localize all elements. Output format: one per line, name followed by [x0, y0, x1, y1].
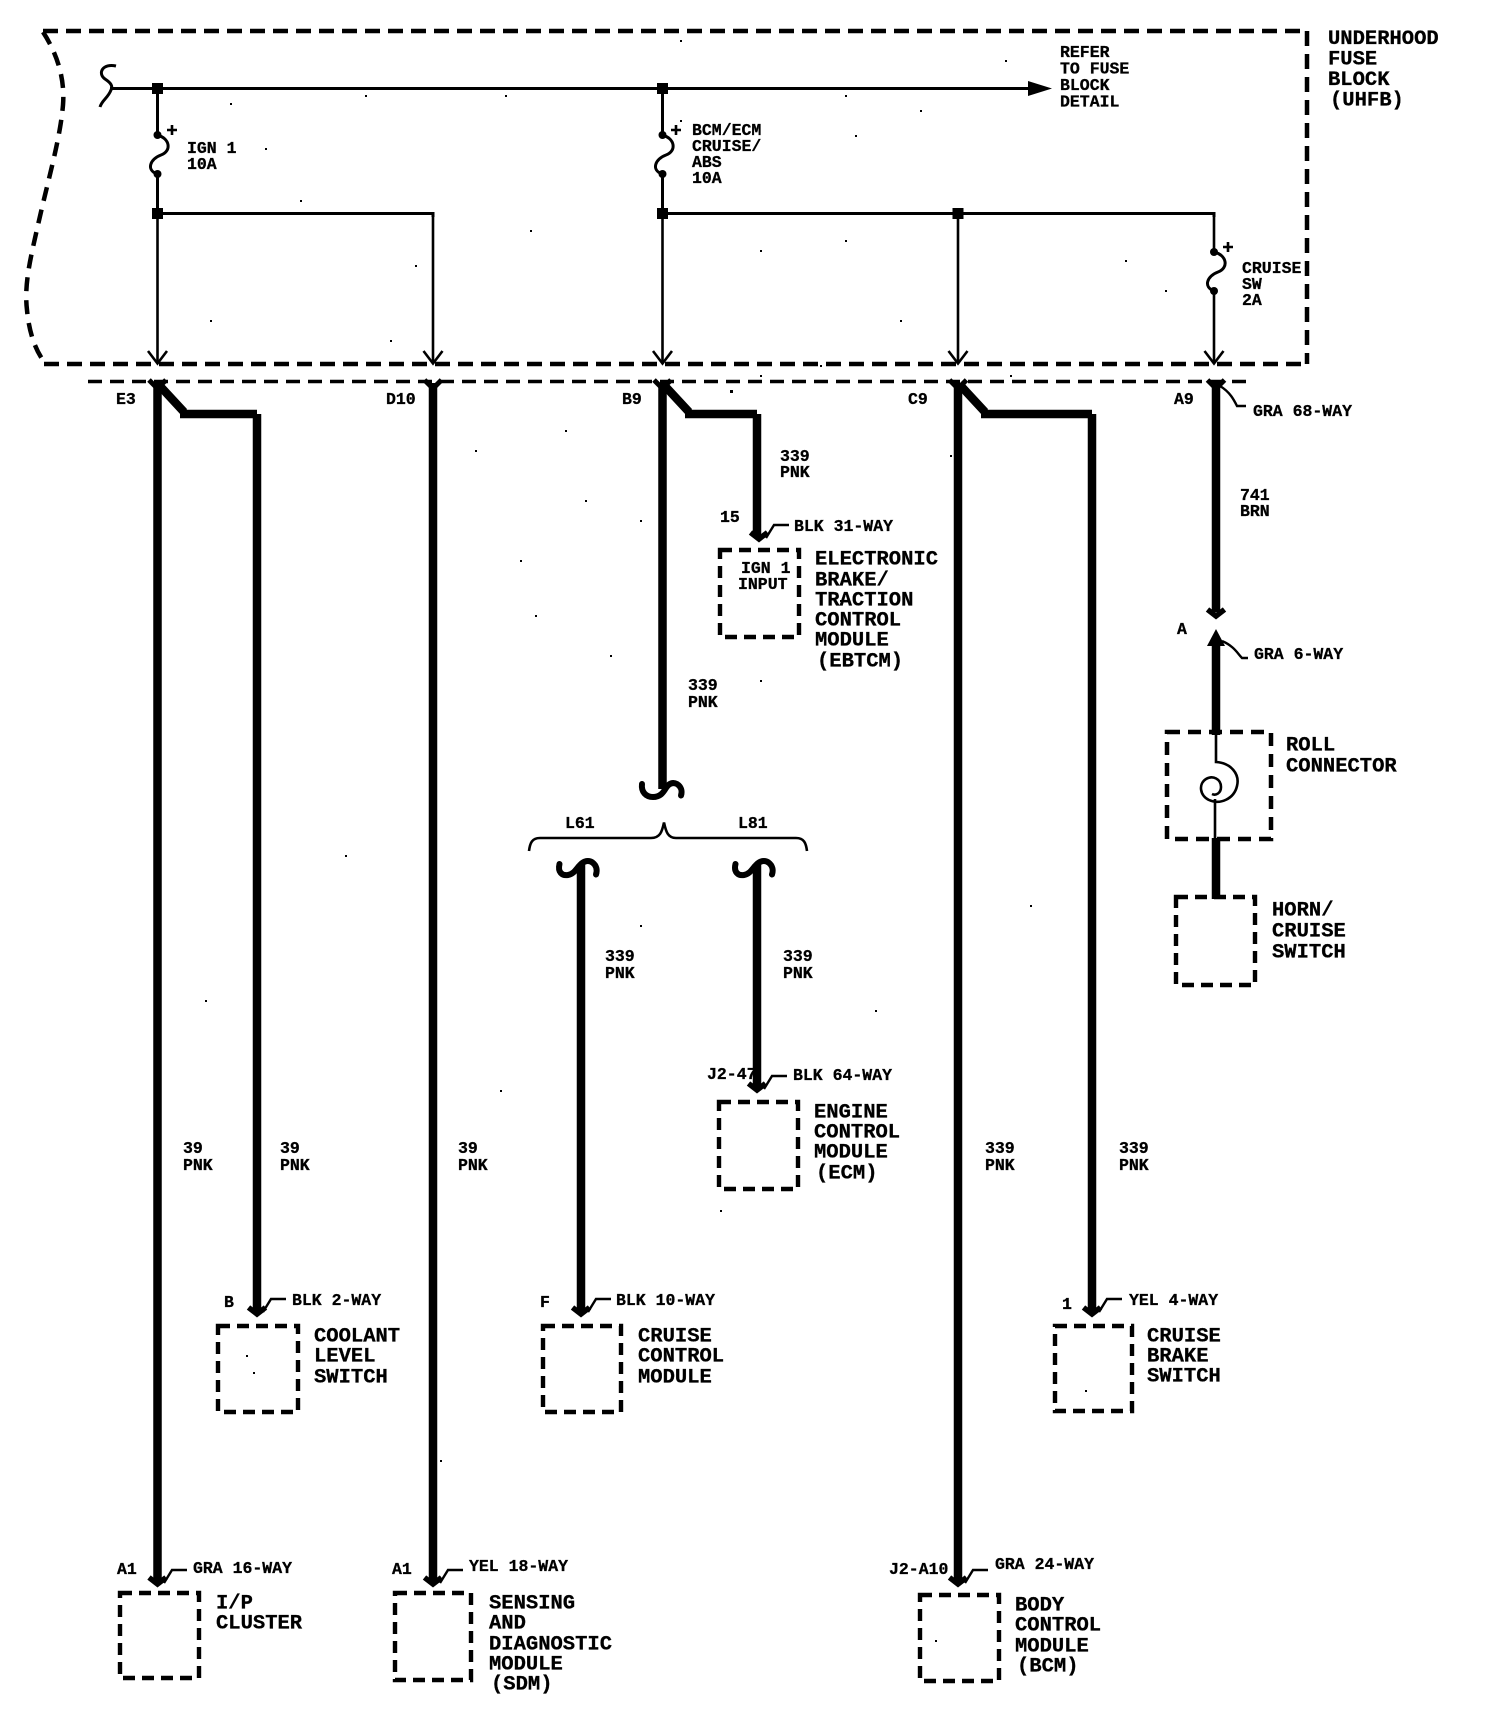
wire 39 PNK E3 branch to coolant level switch: [159, 385, 257, 1311]
svg-text:(SDM): (SDM): [491, 1674, 553, 1697]
svg-text:HORN/: HORN/: [1272, 900, 1334, 923]
fuse BCM/ECM lead lower: [661, 174, 664, 213]
wire top supply bus: [110, 87, 1046, 90]
label BODY CONTROL MODULE (BCM): [1015, 1595, 1101, 1679]
svg-text:MODULE: MODULE: [814, 1142, 888, 1165]
svg-text:LEVEL: LEVEL: [314, 1346, 376, 1369]
module SDM dashed box: [395, 1593, 471, 1680]
connector 15 arrow foot: [751, 533, 768, 540]
leader to GRA 24-WAY: [965, 1570, 988, 1583]
svg-text:2A: 2A: [1242, 291, 1262, 310]
leader to YEL 18-WAY: [440, 1570, 463, 1583]
module ECM dashed box: [719, 1102, 798, 1189]
svg-text:C9: C9: [908, 390, 928, 409]
svg-text:MODULE: MODULE: [815, 630, 889, 653]
svg-text:GRA 6-WAY: GRA 6-WAY: [1254, 645, 1343, 664]
wire 339 PNK to ECM: [753, 864, 762, 1087]
wire 39 PNK D10 vertical: [429, 383, 438, 1581]
underhood fuse block UHFB dashed border left wavy: [26, 32, 63, 363]
connector B9 chevron: [654, 380, 671, 389]
svg-text:10A: 10A: [692, 169, 722, 188]
svg-text:1: 1: [1062, 1295, 1072, 1314]
module I/P cluster dashed box: [120, 1593, 199, 1678]
svg-text:10A: 10A: [187, 155, 217, 174]
wire B9 feed drop: [661, 217, 664, 362]
connector E3 chevron: [149, 380, 166, 389]
wire roll connector to horn/cruise switch: [1212, 838, 1221, 899]
svg-text:PNK: PNK: [183, 1156, 213, 1175]
svg-text:GRA 24-WAY: GRA 24-WAY: [995, 1555, 1094, 1574]
module BCM dashed box: [920, 1595, 999, 1681]
splice start curl cruise control module wire: [559, 861, 597, 875]
fuse IGN 1 10A lead upper: [156, 88, 159, 136]
label 39 PNK (D10): [458, 1139, 488, 1175]
connector J2-A10 arrow foot (BCM): [950, 1578, 967, 1585]
svg-text:J2-47: J2-47: [707, 1065, 757, 1084]
svg-text:E3: E3: [116, 390, 136, 409]
fuse CRUISE SW 2A lead upper: [1213, 214, 1216, 253]
label 339 PNK (cruise control): [605, 947, 635, 983]
wire D10 feed drop: [432, 214, 435, 362]
leader to GRA 16-WAY: [164, 1570, 187, 1583]
arrowhead C9 feed: [949, 351, 968, 364]
leader to BLK 10-WAY: [588, 1299, 611, 1312]
wire bus from IGN1 fuse to D10 drop: [157, 214, 433, 218]
module horn/cruise switch dashed box: [1176, 897, 1255, 985]
label 741 BRN: [1240, 486, 1270, 521]
svg-text:L61: L61: [565, 814, 595, 833]
arrow foot A9 wire end: [1208, 610, 1225, 617]
svg-text:SWITCH: SWITCH: [1147, 1366, 1221, 1389]
label I/P CLUSTER: [216, 1593, 303, 1636]
leader to GRA 6-WAY: [1222, 641, 1248, 658]
plus sign at fuse CRUISE SW: [1223, 242, 1233, 252]
svg-text:(EBTCM): (EBTCM): [817, 651, 903, 674]
svg-text:CONTROL: CONTROL: [638, 1346, 724, 1369]
fuse IGN 1 10A lead lower: [156, 174, 159, 213]
svg-text:GRA 68-WAY: GRA 68-WAY: [1253, 402, 1352, 421]
connector A up arrow solid: [1207, 629, 1225, 646]
svg-text:BLK 31-WAY: BLK 31-WAY: [794, 517, 893, 536]
wire break hook at left end of top bus: [100, 65, 116, 107]
node junction dot x958 y213: [953, 208, 964, 219]
underhood fuse block UHFB dashed border right: [1305, 31, 1310, 364]
svg-text:MODULE: MODULE: [638, 1367, 712, 1390]
svg-text:CLUSTER: CLUSTER: [216, 1613, 303, 1636]
leader to BLK 2-WAY: [263, 1299, 286, 1312]
svg-text:CRUISE: CRUISE: [1272, 921, 1346, 944]
label UNDERHOOD FUSE BLOCK (UHFB): [1328, 28, 1439, 113]
leader to BLK 31-WAY: [766, 525, 789, 538]
wire C9 feed drop: [957, 214, 960, 362]
label 339 PNK (ECM): [783, 947, 813, 983]
wire 39 PNK E3 main vertical: [153, 383, 162, 1581]
label SENSING AND DIAGNOSTIC MODULE (SDM): [489, 1593, 612, 1697]
wire 339 PNK C9 main vertical: [954, 383, 963, 1581]
svg-text:YEL 18-WAY: YEL 18-WAY: [469, 1557, 568, 1576]
connector row dashed line: [88, 380, 1250, 384]
connector 1 arrow foot: [1084, 1308, 1101, 1315]
label IGN 1 10A: [187, 139, 237, 174]
underhood fuse block UHFB dashed border bottom: [44, 362, 1307, 367]
module cruise control module dashed box: [543, 1326, 621, 1412]
wire 339 PNK to cruise control module: [577, 864, 586, 1311]
label 39 PNK (E3): [183, 1139, 213, 1175]
splice end curl at B9 wire: [642, 783, 682, 797]
label ENGINE CONTROL MODULE (ECM): [814, 1102, 900, 1186]
leader to GRA 68-WAY: [1220, 386, 1246, 406]
svg-text:15: 15: [720, 508, 740, 527]
svg-text:A1: A1: [117, 1560, 137, 1579]
connector D10 chevron: [425, 380, 442, 389]
wire 339 PNK B9 main vertical: [658, 383, 667, 789]
wire 339 PNK B9 branch to EBTCM: [664, 385, 757, 536]
svg-text:INPUT: INPUT: [738, 575, 788, 594]
fuse BCM/ECM CRUISE/ABS 10A coil: [655, 135, 673, 174]
svg-text:BLK 10-WAY: BLK 10-WAY: [616, 1291, 715, 1310]
svg-text:D10: D10: [386, 390, 416, 409]
wire 339 PNK C9 branch to cruise brake switch: [960, 385, 1092, 1311]
svg-text:ROLL: ROLL: [1286, 735, 1335, 758]
label 39 PNK (coolant branch): [280, 1139, 310, 1175]
connector A1 arrow foot (SDM): [425, 1578, 442, 1585]
label CRUISE SW 2A: [1242, 259, 1302, 310]
arrow to fuse block detail: [1028, 81, 1052, 96]
wire 741 BRN to roll connector: [1212, 640, 1221, 735]
svg-text:PNK: PNK: [783, 964, 813, 983]
label 339 PNK (B9 main): [688, 676, 718, 712]
node junction dot bus x662: [657, 83, 668, 94]
connector A1 arrow foot (I/P cluster): [149, 1578, 166, 1585]
svg-text:DETAIL: DETAIL: [1060, 93, 1120, 112]
label ROLL CONNECTOR: [1286, 735, 1397, 779]
svg-text:PNK: PNK: [780, 463, 810, 482]
svg-text:YEL 4-WAY: YEL 4-WAY: [1129, 1291, 1218, 1310]
svg-text:PNK: PNK: [1119, 1156, 1149, 1175]
label ELECTRONIC BRAKE/TRACTION CONTROL MODULE (EBTCM): [815, 549, 938, 674]
svg-text:PNK: PNK: [985, 1156, 1015, 1175]
arrowhead D10 feed: [424, 351, 443, 364]
fuse IGN 1 10A coil: [150, 135, 168, 174]
connector F arrow foot: [573, 1308, 590, 1315]
label CRUISE BRAKE SWITCH: [1147, 1326, 1221, 1389]
arrowhead B9 feed: [653, 351, 672, 364]
svg-text:F: F: [540, 1293, 550, 1312]
label CRUISE CONTROL MODULE: [638, 1326, 724, 1390]
connector C9 chevron: [950, 380, 967, 389]
module EBTCM dashed box: [720, 550, 799, 637]
svg-text:PNK: PNK: [688, 693, 718, 712]
label 339 PNK (C9): [985, 1139, 1015, 1175]
plus sign at fuse IGN 1: [167, 125, 177, 135]
label IGN 1 INPUT: [738, 559, 791, 594]
svg-text:SWITCH: SWITCH: [314, 1367, 388, 1390]
connector J2-47 arrow foot: [749, 1084, 766, 1091]
svg-text:(UHFB): (UHFB): [1330, 90, 1404, 113]
svg-text:SWITCH: SWITCH: [1272, 942, 1346, 965]
svg-text:PNK: PNK: [458, 1156, 488, 1175]
node junction dot x157 y213: [152, 208, 163, 219]
svg-text:(ECM): (ECM): [816, 1163, 878, 1186]
svg-text:GRA 16-WAY: GRA 16-WAY: [193, 1559, 292, 1578]
wire E3 feed drop: [156, 217, 159, 362]
svg-text:BLK 2-WAY: BLK 2-WAY: [292, 1291, 381, 1310]
svg-text:B: B: [224, 1293, 234, 1312]
node junction dot x662 y213: [657, 208, 668, 219]
svg-text:PNK: PNK: [280, 1156, 310, 1175]
svg-text:A: A: [1177, 620, 1187, 639]
plus sign at fuse BCM/ECM: [671, 125, 681, 135]
svg-text:CONNECTOR: CONNECTOR: [1286, 756, 1397, 779]
leader to BLK 64-WAY: [764, 1076, 787, 1089]
module cruise brake switch dashed box: [1055, 1326, 1132, 1411]
label 339 PNK (C9 branch): [1119, 1139, 1149, 1175]
roll connector dashed box: [1167, 732, 1271, 839]
svg-text:A9: A9: [1174, 390, 1194, 409]
underhood fuse block UHFB dashed border top: [43, 29, 1307, 34]
svg-text:B9: B9: [622, 390, 642, 409]
svg-text:ELECTRONIC: ELECTRONIC: [815, 549, 938, 572]
leader to YEL 4-WAY: [1099, 1299, 1122, 1312]
fuse CRUISE SW lead lower: [1213, 291, 1216, 362]
label REFER TO FUSE BLOCK DETAIL: [1060, 43, 1129, 112]
node junction dot bus x157: [152, 83, 163, 94]
fuse CRUISE SW 2A coil: [1207, 252, 1225, 291]
svg-text:(BCM): (BCM): [1017, 1656, 1079, 1679]
connector B arrow foot: [249, 1308, 266, 1315]
label 339 PNK (EBTCM branch): [780, 447, 810, 482]
svg-text:BLK 64-WAY: BLK 64-WAY: [793, 1066, 892, 1085]
wire bus from BCM fuse to cruise fuse: [662, 214, 1214, 218]
label HORN/ CRUISE SWITCH: [1272, 900, 1346, 965]
svg-text:AND: AND: [489, 1613, 526, 1636]
splice start curl ECM wire: [735, 861, 773, 875]
svg-text:J2-A10: J2-A10: [889, 1560, 948, 1579]
connector A9 chevron: [1208, 380, 1225, 389]
svg-text:PNK: PNK: [605, 964, 635, 983]
arrowhead A9 feed: [1205, 351, 1224, 364]
module coolant level switch dashed box: [218, 1326, 298, 1412]
arrowhead E3 feed: [148, 351, 167, 364]
label COOLANT LEVEL SWITCH: [314, 1326, 400, 1390]
splice bracket brace L61 L81: [529, 823, 807, 852]
label BCM/ECM CRUISE/ ABS 10A: [692, 121, 761, 188]
wire 741 BRN A9 vertical: [1212, 383, 1221, 612]
svg-text:BRN: BRN: [1240, 502, 1270, 521]
svg-text:A1: A1: [392, 1560, 412, 1579]
roll connector coil wire: [1201, 735, 1238, 838]
svg-text:L81: L81: [738, 814, 768, 833]
fuse BCM/ECM CRUISE/ABS 10A lead upper: [661, 88, 664, 136]
svg-text:CONTROL: CONTROL: [1015, 1615, 1101, 1638]
